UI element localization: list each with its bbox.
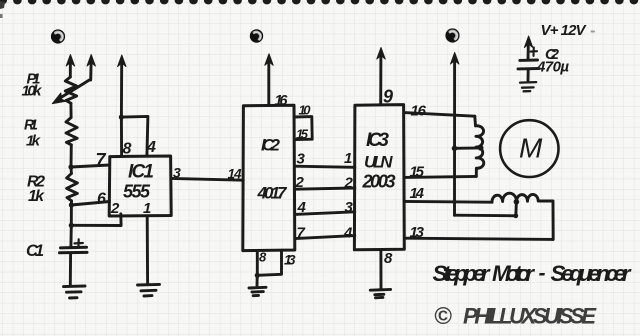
svg-text:-: - [539, 262, 546, 285]
svg-text:16: 16 [275, 93, 289, 109]
svg-text:3: 3 [297, 151, 306, 168]
svg-text:13: 13 [410, 224, 425, 241]
svg-text:9: 9 [383, 87, 393, 107]
svg-text:1: 1 [344, 150, 352, 167]
svg-text:©: © [434, 303, 452, 330]
svg-text:IC2: IC2 [261, 136, 281, 155]
svg-text:PHILLUXSUISSE: PHILLUXSUISSE [463, 304, 597, 329]
svg-text:14: 14 [228, 166, 242, 181]
svg-text:IC1: IC1 [128, 162, 154, 183]
svg-text:470µ: 470µ [536, 59, 569, 76]
svg-text:IC3: IC3 [366, 130, 389, 151]
svg-text:3: 3 [173, 165, 181, 181]
svg-text:8: 8 [123, 141, 132, 158]
svg-text:6: 6 [97, 191, 106, 208]
svg-text:555: 555 [123, 182, 151, 202]
svg-text:1k: 1k [26, 133, 41, 150]
svg-text:2: 2 [295, 174, 305, 191]
svg-text:2: 2 [110, 200, 120, 217]
svg-text:R1: R1 [24, 118, 38, 134]
svg-text:4: 4 [146, 139, 156, 156]
svg-text:V+ 12V: V+ 12V [541, 22, 588, 39]
svg-text:Stepper: Stepper [433, 261, 491, 286]
svg-text:4017: 4017 [257, 184, 289, 203]
svg-text:7: 7 [96, 150, 107, 170]
svg-text:10: 10 [299, 103, 312, 118]
svg-text:3: 3 [345, 199, 354, 216]
svg-text:Motor: Motor [492, 261, 535, 286]
svg-text:13: 13 [284, 252, 296, 267]
svg-text:1k: 1k [28, 188, 45, 205]
svg-text:15: 15 [410, 164, 425, 181]
svg-text:2: 2 [344, 174, 354, 191]
svg-text:2003: 2003 [362, 172, 396, 192]
svg-text:8: 8 [259, 250, 267, 265]
svg-text:8: 8 [384, 250, 393, 267]
svg-text:4: 4 [297, 199, 307, 216]
svg-text:C1: C1 [26, 242, 44, 260]
svg-text:Sequencer: Sequencer [551, 261, 632, 286]
svg-text:7: 7 [297, 225, 306, 242]
svg-text:15: 15 [296, 127, 309, 142]
svg-text:14: 14 [410, 185, 425, 202]
svg-text:10k: 10k [22, 83, 43, 100]
svg-text:ULN: ULN [364, 153, 393, 172]
svg-text:1: 1 [143, 200, 151, 217]
svg-text:4: 4 [343, 224, 353, 241]
svg-text:M: M [519, 133, 543, 164]
svg-text:16: 16 [411, 103, 427, 120]
